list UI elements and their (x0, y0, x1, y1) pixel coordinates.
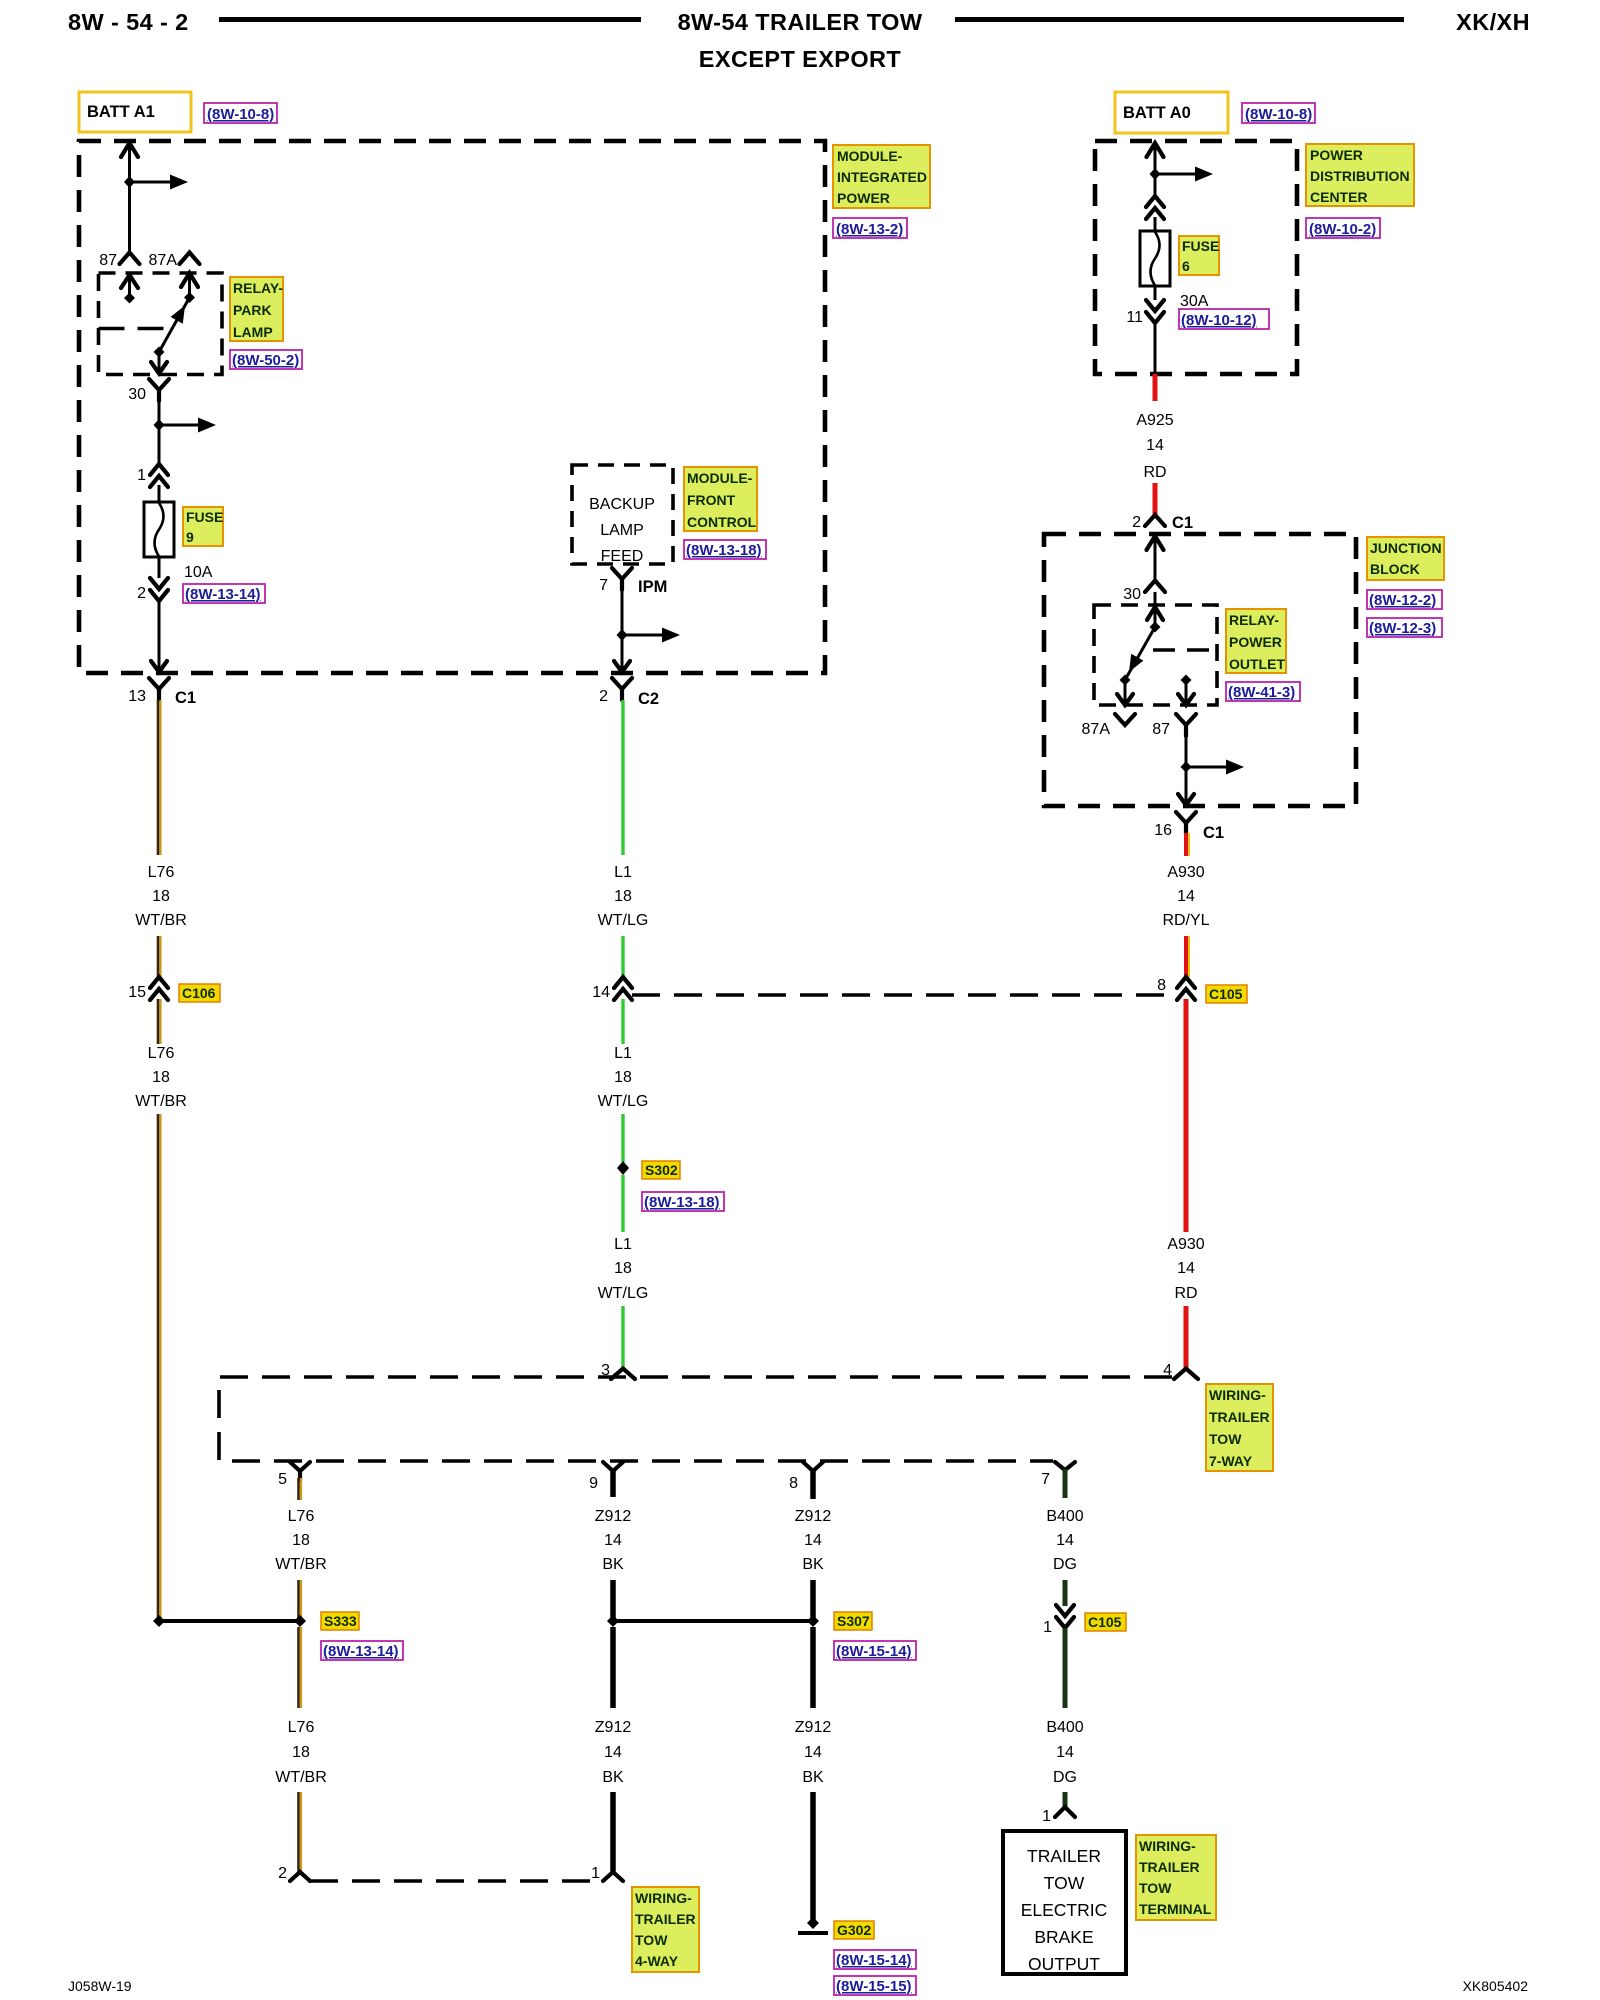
svg-text:11: 11 (1126, 309, 1143, 326)
svg-text:7: 7 (599, 577, 608, 594)
svg-text:10A: 10A (184, 564, 213, 581)
svg-text:Z912: Z912 (795, 1508, 832, 1525)
svg-text:A930: A930 (1167, 864, 1204, 881)
fuse 9 terminal 1 (150, 464, 168, 487)
junction node (617, 629, 628, 641)
svg-text:18: 18 (292, 1532, 310, 1549)
relay pin 87A stub (1124, 680, 1127, 704)
svg-text:87: 87 (1152, 721, 1170, 738)
svg-text:L76: L76 (148, 864, 175, 881)
wire A930 RD to pin 4 (1184, 1306, 1189, 1369)
svg-text:BATT A1: BATT A1 (87, 103, 155, 121)
svg-text:1: 1 (137, 467, 146, 484)
connector pin 4 (1174, 1369, 1198, 1380)
connector pin 1 (603, 1872, 623, 1881)
wire (1154, 217, 1157, 232)
svg-text:18: 18 (152, 888, 170, 905)
svg-text:1: 1 (1042, 1808, 1051, 1825)
svg-text:WT/BR: WT/BR (135, 912, 187, 929)
svg-text:FEED: FEED (601, 548, 644, 565)
svg-text:S307: S307 (837, 1613, 870, 1629)
wire BATT A0 into PDC (1154, 142, 1157, 196)
wire L76 pin5 (297, 1478, 300, 1500)
svg-text:WIRING-: WIRING- (1139, 1838, 1196, 1854)
label S302 (642, 1161, 680, 1179)
arrow down at module edge (614, 661, 630, 672)
svg-text:TOW: TOW (1139, 1880, 1172, 1896)
svg-text:FUSE: FUSE (1182, 238, 1219, 254)
link 8W-13-14 lower (321, 1641, 403, 1660)
svg-text:BACKUP: BACKUP (589, 496, 655, 513)
svg-text:C1: C1 (1203, 824, 1224, 842)
connector C2 pin 2 (612, 678, 632, 700)
svg-text:L1: L1 (614, 1236, 632, 1253)
wire L76 below C106 (157, 999, 160, 1044)
junction node (124, 176, 135, 188)
svg-text:14: 14 (1146, 437, 1164, 454)
svg-text:DG: DG (1053, 1769, 1077, 1786)
connector C1 pin 13 (149, 678, 169, 700)
fuse 6 terminal chevrons (1146, 196, 1164, 219)
label G302 (834, 1921, 874, 1939)
splice S333 (159, 1619, 300, 1623)
svg-text:14: 14 (1056, 1532, 1074, 1549)
svg-text:7-WAY: 7-WAY (1209, 1453, 1253, 1469)
svg-text:XK/XH: XK/XH (1456, 9, 1530, 35)
label RELAY-PARK LAMP (230, 277, 283, 341)
arrow down at module edge (151, 661, 167, 672)
svg-text:OUTPUT: OUTPUT (1028, 1954, 1100, 1974)
svg-text:14: 14 (1177, 1260, 1195, 1277)
svg-text:BATT A0: BATT A0 (1123, 104, 1191, 122)
svg-text:1: 1 (1043, 1619, 1052, 1636)
svg-text:IPM: IPM (638, 578, 667, 596)
svg-text:2: 2 (278, 1865, 287, 1882)
svg-text:RELAY-: RELAY- (1229, 612, 1279, 628)
label C106 (179, 984, 220, 1002)
wire to module edge (158, 599, 161, 671)
svg-text:TRAILER: TRAILER (1139, 1859, 1200, 1875)
svg-text:WT/BR: WT/BR (275, 1556, 327, 1573)
svg-text:14: 14 (804, 1532, 822, 1549)
relay pin 87 stub (128, 274, 131, 298)
svg-text:WT/LG: WT/LG (598, 912, 649, 929)
wire relay to fuse 9 (158, 399, 161, 463)
branch arrow right (1186, 766, 1228, 769)
connector pin 2 (290, 1872, 310, 1881)
wire Z912 below S307 left (610, 1627, 616, 1708)
label C105 (1206, 985, 1247, 1003)
svg-text:C1: C1 (1172, 514, 1193, 532)
svg-text:30: 30 (1123, 586, 1141, 603)
svg-text:(8W-13-18): (8W-13-18) (686, 542, 762, 559)
svg-text:BK: BK (602, 1769, 624, 1786)
svg-text:(8W-10-12): (8W-10-12) (1181, 312, 1257, 329)
wire IPM to module edge (621, 588, 624, 671)
terminal 87 below relay (1176, 714, 1196, 736)
svg-text:B400: B400 (1046, 1508, 1083, 1525)
svg-text:(8W-13-18): (8W-13-18) (644, 1194, 720, 1211)
svg-text:4-WAY: 4-WAY (635, 1953, 679, 1969)
terminal 87A chevron (180, 253, 200, 265)
svg-text:TRAILER: TRAILER (1027, 1846, 1101, 1866)
svg-text:(8W-13-2): (8W-13-2) (836, 221, 903, 238)
link 8W-10-8 right (1242, 103, 1315, 123)
link 8W-15-14 (834, 1641, 916, 1660)
svg-text:2: 2 (599, 688, 608, 705)
connector C105 pin 8 (1177, 977, 1195, 1000)
svg-text:(8W-13-14): (8W-13-14) (323, 1643, 399, 1660)
svg-text:C106: C106 (182, 985, 216, 1001)
svg-text:18: 18 (152, 1069, 170, 1086)
fuse 9 terminal 2 (150, 578, 168, 601)
svg-text:BRAKE: BRAKE (1034, 1927, 1093, 1947)
wire L1 to S302 (621, 1114, 624, 1162)
svg-text:(8W-15-14): (8W-15-14) (836, 1952, 912, 1969)
svg-text:POWER: POWER (837, 190, 890, 206)
svg-text:14: 14 (1177, 888, 1195, 905)
svg-text:CONTROL: CONTROL (687, 514, 757, 530)
svg-text:L76: L76 (288, 1719, 315, 1736)
svg-text:JUNCTION: JUNCTION (1370, 540, 1442, 556)
svg-text:(8W-41-3): (8W-41-3) (1228, 684, 1295, 701)
svg-text:(8W-15-15): (8W-15-15) (836, 1978, 912, 1995)
connector pin 7 (1055, 1462, 1075, 1470)
svg-text:A930: A930 (1167, 1236, 1204, 1253)
svg-text:8W - 54 - 2: 8W - 54 - 2 (68, 9, 189, 35)
svg-text:87: 87 (99, 252, 117, 269)
svg-text:(8W-15-14): (8W-15-14) (836, 1643, 912, 1660)
label S307 (834, 1612, 872, 1630)
svg-text:8: 8 (789, 1475, 798, 1492)
wire L76 to S333 (297, 1580, 300, 1618)
svg-text:WIRING-: WIRING- (635, 1890, 692, 1906)
wire A930 RD/YL upper (1184, 833, 1188, 856)
splice S302 node (617, 1161, 629, 1175)
fuse 6 element (1140, 231, 1170, 286)
link 8W-12-3 (1367, 618, 1442, 637)
connector pin 1 trailer box (1055, 1807, 1075, 1817)
wire L76 upper (157, 700, 160, 855)
svg-text:C105: C105 (1209, 986, 1243, 1002)
wire A925 lower (1153, 483, 1158, 515)
svg-text:(8W-12-2): (8W-12-2) (1369, 592, 1436, 609)
svg-text:(8W-13-14): (8W-13-14) (185, 586, 261, 603)
terminal 7 IPM (612, 568, 632, 590)
svg-text:B400: B400 (1046, 1719, 1083, 1736)
relay output terminal 30 (149, 379, 169, 401)
wire A925 14 RD (1153, 374, 1158, 401)
connector pin 9 (603, 1462, 623, 1471)
svg-text:A925: A925 (1136, 412, 1173, 429)
backup lamp feed box (572, 465, 673, 564)
svg-text:L1: L1 (614, 864, 632, 881)
relay coil line (1153, 648, 1217, 652)
relay switch blade (1125, 627, 1155, 680)
link 8W-41-3 (1226, 682, 1300, 701)
wire L1 (621, 936, 624, 977)
svg-text:TRAILER: TRAILER (1209, 1409, 1270, 1425)
svg-text:5: 5 (278, 1471, 287, 1488)
svg-text:(8W-10-2): (8W-10-2) (1309, 221, 1376, 238)
label FUSE 9 (183, 507, 223, 546)
header rule right (955, 17, 1404, 22)
connector pin 8 (803, 1462, 823, 1471)
svg-text:C2: C2 (638, 690, 659, 708)
svg-text:18: 18 (614, 1260, 632, 1277)
ground G302 (807, 1917, 819, 1929)
module-integrated power box (79, 141, 825, 673)
relay pin 87A stub (188, 272, 191, 298)
svg-text:3: 3 (601, 1362, 610, 1379)
svg-text:2: 2 (137, 585, 146, 602)
link 8W-10-8 left (204, 103, 277, 123)
link 8W-10-12 (1179, 309, 1269, 329)
svg-text:30A: 30A (1180, 293, 1209, 310)
connector pin 3 (611, 1369, 635, 1380)
wire to relay power outlet (1154, 592, 1157, 606)
svg-text:TOW: TOW (1044, 1873, 1085, 1893)
wire L1 to pin 3 (621, 1306, 624, 1369)
wire into junction block (1154, 535, 1157, 580)
svg-text:6: 6 (1182, 258, 1190, 274)
svg-text:(8W-12-3): (8W-12-3) (1369, 620, 1436, 637)
wire L1 below S302 (621, 1175, 624, 1232)
svg-text:FRONT: FRONT (687, 492, 736, 508)
label JUNCTION BLOCK (1367, 537, 1444, 580)
wire Z912 to ground (810, 1792, 816, 1922)
svg-text:C1: C1 (175, 689, 196, 707)
svg-text:DISTRIBUTION: DISTRIBUTION (1310, 168, 1410, 184)
fuse 9 element (144, 502, 174, 557)
label RELAY-POWER OUTLET (1226, 609, 1286, 673)
link 8W-13-18 (684, 540, 766, 559)
svg-text:13: 13 (128, 688, 146, 705)
svg-text:14: 14 (604, 1744, 622, 1761)
label POWER DISTRIBUTION CENTER (1306, 144, 1414, 206)
wire Z912 below S307 right (810, 1627, 816, 1708)
svg-text:WT/BR: WT/BR (275, 1769, 327, 1786)
svg-text:S333: S333 (324, 1613, 357, 1629)
battery feed box BATT A1 (79, 92, 191, 132)
relay pin 87 stub (1181, 675, 1192, 686)
connector C105 pin 14 (614, 977, 632, 1000)
link 8W-12-2 (1367, 590, 1442, 609)
svg-text:8: 8 (1157, 977, 1166, 994)
svg-text:Z912: Z912 (595, 1508, 632, 1525)
wire L76 long run to S333 (157, 1114, 160, 1618)
svg-text:WT/BR: WT/BR (135, 1093, 187, 1110)
svg-text:ELECTRIC: ELECTRIC (1021, 1900, 1108, 1920)
wire L1 below (621, 999, 624, 1044)
branch arrow right (1155, 173, 1197, 176)
svg-text:C105: C105 (1088, 1614, 1122, 1630)
svg-text:4: 4 (1163, 1362, 1172, 1379)
svg-text:TOW: TOW (1209, 1431, 1242, 1447)
label WIRING-TRAILER TOW 7-WAY (1206, 1384, 1273, 1471)
svg-text:16: 16 (1154, 822, 1172, 839)
link 8W-13-14 (183, 584, 265, 603)
relay pin 30 stub (1154, 606, 1157, 627)
relay switch blade (159, 298, 190, 353)
connector C106 pin 15 (150, 977, 168, 1000)
connector C105 pin 1 (1056, 1605, 1074, 1628)
link 8W-13-18 (642, 1192, 724, 1211)
link 8W-15-15 (834, 1976, 916, 1995)
svg-text:DG: DG (1053, 1556, 1077, 1573)
svg-text:1: 1 (591, 1865, 600, 1882)
link 8W-50-2 (230, 350, 302, 369)
relay power outlet box (1094, 605, 1217, 705)
arrow up into BATT A1 (121, 143, 138, 157)
trailer tow 4-way connector dashed line (310, 1879, 603, 1883)
wire L76 to pin 2 (297, 1792, 300, 1872)
label MODULE-INTEGRATED POWER (833, 145, 930, 208)
svg-text:POWER: POWER (1229, 634, 1282, 650)
power distribution center box (1095, 141, 1297, 374)
svg-text:BK: BK (802, 1556, 824, 1573)
svg-text:BLOCK: BLOCK (1370, 561, 1420, 577)
link 8W-10-2 (1306, 218, 1380, 238)
wire (158, 485, 161, 503)
svg-text:7: 7 (1041, 1471, 1050, 1488)
svg-text:TRAILER: TRAILER (635, 1911, 696, 1927)
arrow down at junction block edge (1178, 794, 1194, 805)
svg-text:18: 18 (614, 1069, 632, 1086)
wire Z912 to S307 (610, 1580, 616, 1618)
label WIRING-TRAILER TOW 4-WAY (632, 1887, 699, 1972)
wire Z912 to S307 right (810, 1580, 816, 1618)
wire L76 below S333 (297, 1627, 300, 1708)
svg-text:WIRING-: WIRING- (1209, 1387, 1266, 1403)
svg-text:8W-54 TRAILER TOW: 8W-54 TRAILER TOW (678, 9, 923, 35)
connector C1 pin 16 (1176, 812, 1196, 834)
wire A930 RD long (1184, 999, 1189, 1232)
svg-text:9: 9 (186, 529, 194, 545)
wire 87 to junction block edge (1185, 734, 1188, 804)
svg-text:POWER: POWER (1310, 147, 1363, 163)
relay park lamp box (99, 273, 223, 375)
svg-text:INTEGRATED: INTEGRATED (837, 169, 927, 185)
svg-text:RD: RD (1143, 464, 1166, 481)
branch arrow right (622, 634, 664, 637)
connector pin 5 (290, 1462, 310, 1480)
relay pin 30 stub (158, 352, 161, 373)
svg-text:14: 14 (1056, 1744, 1074, 1761)
battery feed box BATT A0 (1115, 92, 1228, 133)
svg-text:(8W-10-8): (8W-10-8) (207, 106, 274, 123)
svg-text:PARK: PARK (233, 302, 272, 318)
splice S307 (613, 1619, 813, 1623)
label WIRING-TRAILER TOW TERMINAL (1136, 1835, 1216, 1920)
wire B400 to C105 (1063, 1580, 1068, 1606)
wire Z912 to pin 1 (610, 1792, 616, 1872)
svg-text:G302: G302 (837, 1922, 871, 1938)
svg-text:(8W-50-2): (8W-50-2) (232, 352, 299, 369)
svg-text:18: 18 (292, 1744, 310, 1761)
svg-text:EXCEPT EXPORT: EXCEPT EXPORT (699, 46, 902, 72)
svg-text:LAMP: LAMP (233, 324, 273, 340)
connector row C105 dashed line (632, 993, 1176, 997)
svg-text:MODULE-: MODULE- (687, 470, 753, 486)
svg-text:Z912: Z912 (795, 1719, 832, 1736)
svg-text:(8W-10-8): (8W-10-8) (1245, 106, 1312, 123)
svg-text:L76: L76 (288, 1508, 315, 1525)
header rule left (219, 17, 641, 22)
svg-text:BK: BK (602, 1556, 624, 1573)
svg-text:FUSE: FUSE (186, 509, 223, 525)
svg-text:CENTER: CENTER (1310, 189, 1368, 205)
svg-text:2: 2 (1132, 514, 1141, 531)
junction node (154, 419, 165, 431)
relay coil line (99, 327, 167, 331)
svg-text:J058W-19: J058W-19 (68, 1978, 132, 1994)
svg-text:RD: RD (1174, 1285, 1197, 1302)
svg-text:Z912: Z912 (595, 1719, 632, 1736)
wire to PDC edge (1154, 321, 1157, 373)
svg-text:87A: 87A (149, 252, 178, 269)
wire L76 (157, 936, 160, 977)
svg-text:BK: BK (802, 1769, 824, 1786)
svg-text:18: 18 (614, 888, 632, 905)
svg-text:RD/YL: RD/YL (1162, 912, 1209, 929)
wire A930 RD/YL lower (1184, 936, 1188, 977)
svg-text:XK805402: XK805402 (1463, 1978, 1529, 1994)
svg-text:L1: L1 (614, 1045, 632, 1062)
svg-text:14: 14 (604, 1532, 622, 1549)
terminal 87 chevron (120, 253, 140, 265)
terminal 87A below relay (1115, 714, 1135, 725)
link 8W-15-14 lower (834, 1950, 916, 1969)
svg-text:WT/LG: WT/LG (598, 1093, 649, 1110)
label C105 lower (1085, 1613, 1126, 1631)
svg-text:RELAY-: RELAY- (233, 280, 283, 296)
link 8W-13-2 (833, 218, 907, 238)
svg-text:OUTLET: OUTLET (1229, 656, 1285, 672)
svg-text:LAMP: LAMP (600, 522, 644, 539)
label MODULE-FRONT CONTROL (684, 467, 757, 531)
junction block box (1044, 534, 1356, 806)
svg-text:L76: L76 (148, 1045, 175, 1062)
wire B400 to trailer box (1063, 1792, 1068, 1807)
svg-text:9: 9 (589, 1475, 598, 1492)
connector C1 pin 2 (1145, 515, 1165, 526)
wire L1 WT/LG upper (621, 700, 624, 855)
branch arrow right (159, 424, 200, 427)
svg-text:15: 15 (128, 984, 146, 1001)
arrow up at junction block edge (1147, 536, 1164, 550)
branch arrow right (130, 181, 173, 184)
wire BATT A1 to relay park lamp (128, 142, 131, 252)
junction node (1150, 168, 1161, 180)
junction node (1181, 761, 1192, 773)
svg-text:14: 14 (592, 984, 610, 1001)
label FUSE 6 (1179, 236, 1219, 275)
svg-text:TERMINAL: TERMINAL (1139, 1901, 1212, 1917)
svg-text:87A: 87A (1082, 721, 1111, 738)
fuse 6 terminal 11 (1146, 300, 1164, 323)
relay 30 chevron (1145, 581, 1165, 593)
svg-text:S302: S302 (645, 1162, 678, 1178)
svg-text:WT/LG: WT/LG (598, 1285, 649, 1302)
svg-text:30: 30 (128, 386, 146, 403)
wire B400 below C105 (1063, 1628, 1068, 1708)
arrow up into BATT A0 (1147, 143, 1164, 157)
wire (158, 557, 161, 578)
trailer tow electric brake output box (1003, 1831, 1126, 1974)
trailer tow 7-way connector dashed outline (219, 1377, 1172, 1461)
label S333 (321, 1612, 359, 1630)
